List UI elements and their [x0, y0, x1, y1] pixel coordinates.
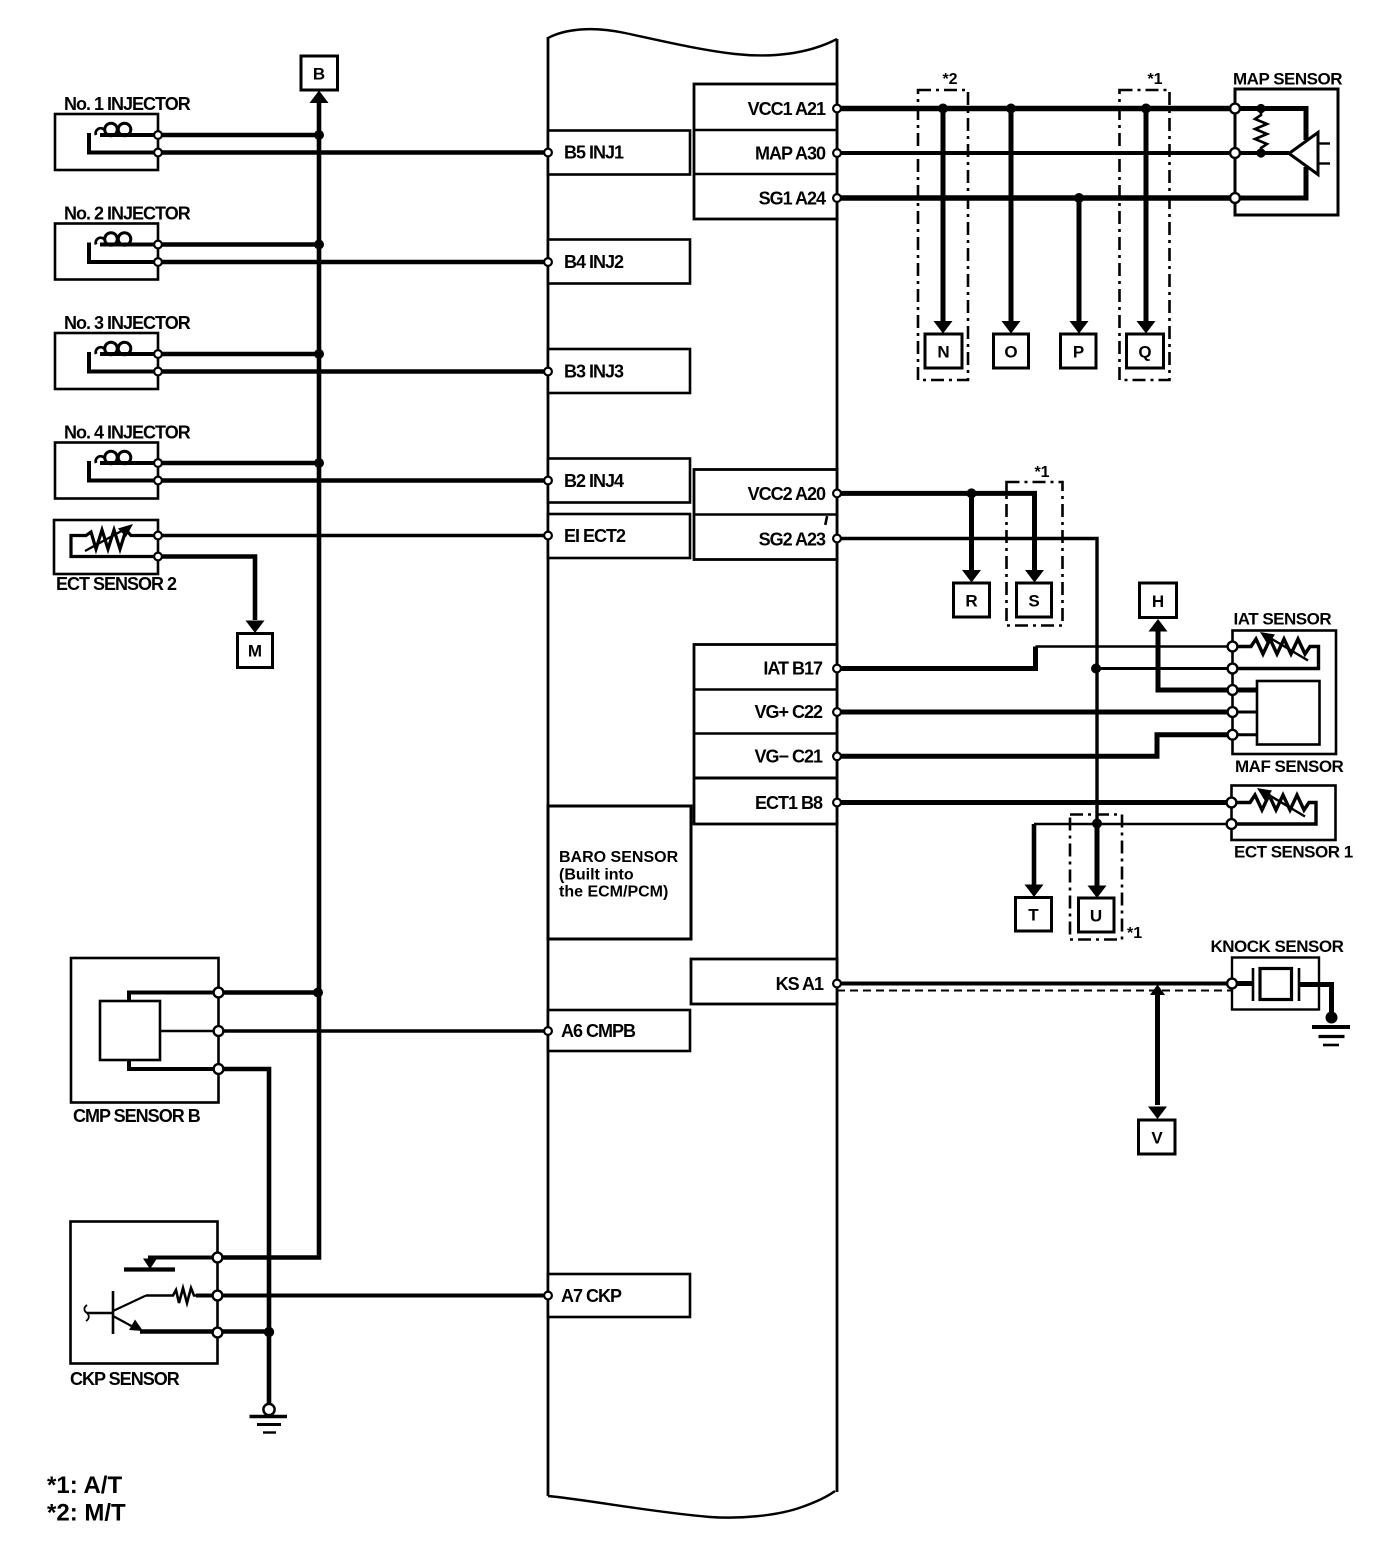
- ECM pin terminal SG2: [833, 535, 841, 543]
- svg-text:T: T: [1028, 906, 1039, 925]
- wire: drop to T: [1032, 824, 1037, 886]
- svg-text:R: R: [965, 592, 977, 611]
- MAF sensor inner box: [1257, 681, 1320, 745]
- svg-text:*2: *2: [942, 71, 957, 88]
- wire: CKP sensor signal to A7 CKP: [196, 1294, 548, 1298]
- ECM pin terminal A7: [544, 1292, 552, 1300]
- wire: drop to R: [969, 493, 974, 571]
- connector box S: [1017, 583, 1052, 617]
- svg-text:A7 CKP: A7 CKP: [561, 1286, 622, 1306]
- ECM pin terminal B2: [544, 477, 552, 485]
- CMP sensor B internals: [129, 993, 219, 1070]
- junction dot bus/CMP top: [313, 988, 323, 998]
- pin box A6 CMPB: [548, 1010, 690, 1051]
- junction dot bus/injector2: [314, 240, 324, 250]
- ECM pin terminal A6: [544, 1027, 552, 1035]
- No. 3 injector box: [55, 333, 158, 389]
- connector box R: [954, 583, 990, 617]
- wire: MAP A30 to MAP sensor: [837, 151, 1235, 155]
- ECM pin terminal VG-: [833, 752, 841, 760]
- arrow down into M box: [246, 621, 265, 634]
- junction dot CMP-ground/CKP-ground: [264, 1327, 274, 1337]
- svg-text:B5 INJ1: B5 INJ1: [564, 143, 624, 163]
- injector2 terminal bottom: [154, 258, 162, 266]
- CKP SENSOR box: [71, 1222, 218, 1364]
- svg-text:MAP SENSOR: MAP SENSOR: [1233, 70, 1342, 89]
- wire: CMP sensor B ground down to CKP ground junction: [219, 1069, 270, 1332]
- wire: ECT sensor 2 signal to EI ECT2: [158, 534, 548, 538]
- arrow down into N box: [934, 321, 953, 334]
- ECM pin terminal B4: [544, 258, 552, 266]
- injector1 terminal top: [154, 131, 162, 139]
- dash-dot option box *2 (M/T) around N drop: [918, 90, 968, 380]
- ECM/PCM band left edge: [547, 37, 550, 1496]
- svg-text:V: V: [1151, 1129, 1163, 1148]
- MAF inner stubs: [1233, 690, 1258, 735]
- wire: KS shield (dashed): [837, 990, 1232, 992]
- ECM pin terminal SG1: [833, 194, 841, 202]
- connector box V: [1139, 1120, 1176, 1154]
- wire: CMP sensor B signal to A6 CMPB: [219, 1029, 549, 1033]
- wire: SG2 drop to U: [1095, 823, 1100, 887]
- arrow down into R box: [962, 570, 981, 583]
- wire: injector3 top coil wire to B bus: [158, 352, 319, 357]
- ECM pin terminal ECT1: [833, 799, 841, 807]
- arrow down into S box: [1025, 570, 1044, 583]
- IAT/MAF terminal 5: [1228, 730, 1238, 740]
- CMP SENSOR B box: [71, 958, 219, 1103]
- wire: IAT B17 to IAT sensor: [837, 647, 1036, 669]
- wire: drop to V: [1155, 992, 1160, 1105]
- injector3 terminal top: [154, 350, 162, 358]
- arrow up into H box: [1149, 619, 1168, 632]
- svg-text:(Built into: (Built into: [559, 867, 634, 884]
- svg-text:MAP A30: MAP A30: [755, 144, 826, 164]
- dash-dot option box *1 (A/T) around Q drop: [1120, 90, 1170, 380]
- wire: SG2 A23 down to ECT1 return junction: [837, 539, 1097, 824]
- CKP terminal 1: [213, 1253, 223, 1263]
- IAT/MAF terminal 2: [1228, 664, 1238, 674]
- svg-text:CMP SENSOR B: CMP SENSOR B: [73, 1106, 201, 1126]
- right pin block VCC2/SG2: [694, 470, 837, 560]
- wire: injector1 top coil wire to B bus: [158, 133, 319, 138]
- knock sensor internals: piezo element: [1232, 968, 1332, 1013]
- junction dot bus/injector3: [314, 349, 324, 359]
- svg-text:B: B: [313, 65, 325, 84]
- CKP terminal 3: [213, 1328, 223, 1338]
- svg-text:No. 2 INJECTOR: No. 2 INJECTOR: [64, 204, 191, 224]
- dash-dot option box *1 around U drop: [1070, 815, 1122, 940]
- ECM pin terminal EI: [544, 532, 552, 540]
- svg-text:M: M: [248, 642, 262, 661]
- wire: injector4 bottom wire to B2 INJ4: [158, 478, 548, 483]
- arrow down into Q box: [1137, 321, 1156, 334]
- shield tap triangle at V drop: [1150, 985, 1165, 996]
- junction dot VCC1/O: [1006, 104, 1016, 114]
- junction dot bus/injector4: [314, 458, 324, 468]
- knock sensor terminal: [1227, 979, 1237, 989]
- svg-text:No. 3 INJECTOR: No. 3 INJECTOR: [64, 313, 191, 333]
- wire: SG2 branch to IAT sensor return: [1096, 667, 1233, 670]
- right pin block VCC1/MAP/SG1: [694, 84, 837, 219]
- KNOCK SENSOR box: [1232, 958, 1319, 1010]
- connector box B: [301, 56, 338, 90]
- svg-text:MAF SENSOR: MAF SENSOR: [1235, 757, 1344, 776]
- MAP SENSOR box: [1235, 89, 1338, 215]
- IAT/MAF combined sensor box: [1233, 631, 1337, 755]
- wire: injector2 top coil wire to B bus: [158, 242, 319, 247]
- connector box O: [994, 334, 1029, 368]
- svg-text:P: P: [1073, 343, 1084, 362]
- No. 4 injector coil internals: [89, 451, 158, 480]
- footnote tick above SG2 A23: [824, 516, 828, 525]
- svg-text:KS A1: KS A1: [776, 974, 824, 994]
- svg-text:U: U: [1090, 907, 1102, 926]
- wire: B power bus vertical with corner to CKP top terminal: [218, 100, 320, 1258]
- arrow down into P box: [1070, 321, 1089, 334]
- IAT/MAF terminal 3: [1228, 685, 1238, 695]
- wire: injector1 bottom wire to B5 INJ1: [158, 150, 548, 155]
- svg-text:No. 4 INJECTOR: No. 4 INJECTOR: [64, 423, 191, 443]
- connector box N: [925, 334, 962, 368]
- ECT sensor 2 thermistor internals: [71, 524, 158, 557]
- No. 1 injector box: [55, 114, 158, 170]
- svg-text:SG1 A24: SG1 A24: [759, 189, 826, 209]
- injector2 terminal top: [154, 241, 162, 249]
- wire: injector3 bottom wire to B3 INJ3: [158, 369, 548, 374]
- ECT sensor 2 terminal bottom: [154, 553, 162, 561]
- wire: ECT sensor 2 ground to M: [158, 557, 255, 621]
- wire: CKP sensor ground wire: [140, 1329, 271, 1334]
- svg-text:ECT SENSOR 1: ECT SENSOR 1: [1234, 843, 1353, 862]
- svg-text:B4 INJ2: B4 INJ2: [564, 252, 624, 272]
- MAP sensor terminal 1: [1230, 104, 1240, 114]
- wire: drop to O: [1009, 109, 1014, 323]
- ECM pin terminal B5: [544, 149, 552, 157]
- No. 4 injector box: [55, 443, 158, 499]
- No. 2 injector coil internals: [89, 233, 158, 262]
- BARO sensor block: [548, 806, 691, 939]
- injector1 terminal bottom: [154, 149, 162, 157]
- svg-text:B2 INJ4: B2 INJ4: [564, 471, 624, 491]
- knock sensor ground dot: [1326, 1012, 1338, 1024]
- pin box B3 INJ3: [548, 349, 690, 393]
- svg-text:VG− C21: VG− C21: [754, 747, 823, 767]
- pin box EI ECT2: [548, 514, 690, 558]
- svg-text:*1: *1: [1127, 925, 1142, 942]
- wire: ECT1 B8 to ECT sensor 1: [837, 800, 1232, 805]
- svg-text:the ECM/PCM): the ECM/PCM): [559, 884, 668, 901]
- arrow down into T box: [1025, 885, 1044, 898]
- ECM pin terminal VCC2: [833, 490, 841, 498]
- ECT SENSOR 2 box: [54, 520, 158, 574]
- CMP sensor B inner element: [100, 1001, 160, 1060]
- svg-text:N: N: [937, 343, 949, 362]
- ground symbol: terminal ring: [263, 1404, 274, 1415]
- injector3 terminal bottom: [154, 368, 162, 376]
- ECT sensor 1 terminal 1: [1227, 798, 1237, 808]
- svg-text:O: O: [1004, 343, 1017, 362]
- wire: VG- C21 to MAF sensor: [837, 735, 1233, 757]
- wire: ground drop: [267, 1332, 272, 1404]
- wire: H drop to MAF heater terminal: [1158, 629, 1233, 690]
- injector4 terminal bottom: [154, 477, 162, 485]
- arrow down into V box: [1148, 1107, 1167, 1120]
- ECM/PCM band right edge: [836, 39, 839, 1492]
- right pin block IAT/VG+/VG-/ECT1: [694, 645, 837, 825]
- IAT sensor thermistor internals: [1233, 632, 1319, 669]
- junction dot SG1/P: [1074, 193, 1084, 203]
- ECT sensor 1 thermistor internals: [1232, 788, 1317, 824]
- ECM band wavy top edge: [548, 29, 837, 55]
- wire: injector4 top coil wire to B bus: [158, 461, 319, 466]
- svg-text:IAT B17: IAT B17: [763, 659, 823, 679]
- svg-text:VG+ C22: VG+ C22: [754, 702, 823, 722]
- connector box T: [1016, 898, 1052, 932]
- wire: injector2 bottom wire to B4 INJ2: [158, 260, 548, 265]
- connector box U: [1079, 898, 1115, 932]
- svg-text:*1: A/T: *1: A/T: [47, 1472, 122, 1499]
- arrow down into O box: [1002, 321, 1021, 334]
- connector box M: [238, 634, 273, 668]
- wire: IAT jog thin segment: [1036, 645, 1233, 648]
- right pin block KS A1: [691, 959, 837, 1004]
- ECM pin terminal VG+: [833, 708, 841, 716]
- wire: drop to Q: [1144, 109, 1149, 323]
- MAP sensor internals: [1235, 104, 1330, 198]
- CKP terminal 2: [213, 1291, 223, 1301]
- ECM pin terminal MAP: [833, 149, 841, 157]
- svg-text:S: S: [1028, 592, 1039, 611]
- svg-text:A6 CMPB: A6 CMPB: [561, 1021, 636, 1041]
- wire: VG+ C22 to MAF sensor: [837, 710, 1233, 715]
- junction dot VCC1/N: [938, 104, 948, 114]
- svg-text:BARO SENSOR: BARO SENSOR: [559, 849, 679, 866]
- CKP sensor internals: coil resistor: [146, 1288, 196, 1303]
- CMP terminal 2: [214, 1026, 224, 1036]
- No. 3 injector coil internals: [89, 342, 158, 371]
- svg-text:H: H: [1152, 592, 1164, 611]
- svg-text:VCC2 A20: VCC2 A20: [748, 484, 826, 504]
- pin box B2 INJ4: [548, 459, 690, 503]
- junction dot bus/injector1: [314, 130, 324, 140]
- svg-text:ECT SENSOR 2: ECT SENSOR 2: [56, 574, 177, 594]
- svg-text:No. 1 INJECTOR: No. 1 INJECTOR: [64, 94, 191, 114]
- svg-text:B3 INJ3: B3 INJ3: [564, 362, 624, 382]
- pin box B4 INJ2: [548, 240, 690, 284]
- injector4 terminal top: [154, 459, 162, 467]
- svg-text:IAT SENSOR: IAT SENSOR: [1234, 610, 1332, 629]
- svg-text:*1: *1: [1034, 464, 1049, 481]
- CKP sensor internals: shield bar with arrow: [124, 1258, 218, 1270]
- ECM pin terminal VCC1: [833, 105, 841, 113]
- ECT sensor 2 terminal top: [154, 532, 162, 540]
- wire: drop to P: [1077, 198, 1082, 322]
- wire: SG1 A24 to MAP sensor: [837, 195, 1235, 200]
- wire: VCC1 A21 to MAP sensor: [837, 106, 1235, 111]
- arrow down into U box: [1088, 886, 1107, 899]
- ECT SENSOR 1 box: [1232, 786, 1336, 841]
- svg-text:*2: M/T: *2: M/T: [47, 1500, 126, 1527]
- CMP terminal 3: [214, 1064, 224, 1074]
- arrow up into B box: [310, 91, 329, 104]
- ECM pin terminal IAT: [833, 665, 841, 673]
- svg-text:KNOCK SENSOR: KNOCK SENSOR: [1211, 937, 1344, 956]
- connector box H: [1140, 583, 1177, 618]
- knock sensor ground bars: [1312, 1027, 1350, 1045]
- junction dot VCC2/R: [967, 488, 977, 498]
- svg-text:CKP SENSOR: CKP SENSOR: [70, 1369, 180, 1389]
- ground symbol bars: [250, 1417, 288, 1433]
- svg-text:EI ECT2: EI ECT2: [564, 526, 626, 546]
- wire: VCC2 A20 to R and S: [837, 493, 1035, 571]
- svg-text:SG2 A23: SG2 A23: [759, 530, 826, 550]
- wire: drop to N: [941, 109, 946, 323]
- wire: CMP sensor B top terminal to B bus: [219, 990, 319, 995]
- ECM pin terminal KS: [833, 980, 841, 988]
- svg-text:Q: Q: [1138, 343, 1151, 362]
- svg-text:ECT1 B8: ECT1 B8: [755, 793, 823, 813]
- CMP terminal 1: [214, 988, 224, 998]
- svg-text:*1: *1: [1147, 71, 1162, 88]
- junction dot SG2/IAT return: [1091, 664, 1101, 674]
- ECT sensor 1 terminal 2: [1227, 819, 1237, 829]
- MAP sensor terminal 3: [1230, 193, 1240, 203]
- IAT/MAF terminal 1: [1228, 642, 1238, 652]
- CKP sensor internals: pickup pole and flux arrow: [84, 1291, 146, 1334]
- IAT/MAF terminal 4: [1228, 707, 1238, 717]
- connector box Q: [1127, 334, 1164, 368]
- junction dot SG2/ECT1 return: [1092, 819, 1102, 829]
- pin box A7 CKP: [548, 1274, 690, 1317]
- No. 1 injector coil internals: [89, 123, 158, 152]
- wire: KS A1 to knock sensor (signal): [837, 982, 1232, 986]
- pin box B5 INJ1: [548, 131, 690, 175]
- ECM pin terminal B3: [544, 368, 552, 376]
- No. 2 injector box: [55, 224, 158, 280]
- MAP sensor terminal 2: [1230, 148, 1240, 158]
- wire: ECT sensor 1 return to T and SG2: [1034, 823, 1232, 826]
- junction dot VCC1/Q: [1141, 104, 1151, 114]
- svg-text:VCC1 A21: VCC1 A21: [748, 99, 826, 119]
- dash-dot option box *1 around S drop: [1007, 482, 1063, 626]
- connector box P: [1061, 334, 1097, 368]
- ECM band wavy bottom edge: [548, 1491, 835, 1518]
